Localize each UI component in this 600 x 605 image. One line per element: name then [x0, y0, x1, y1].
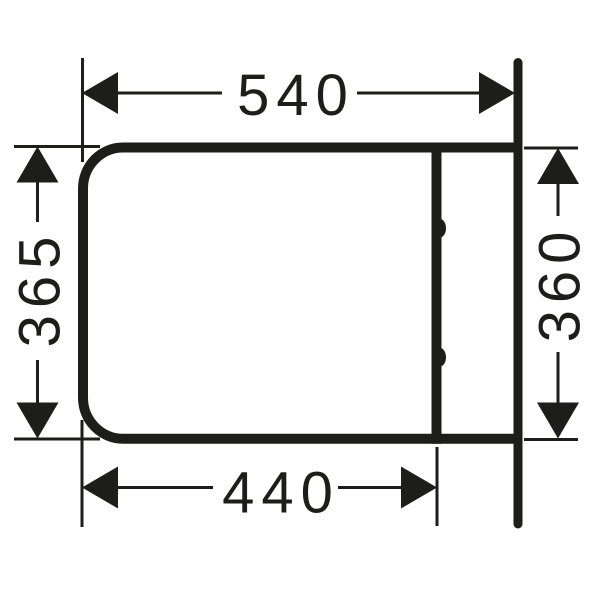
seat rear edge line: [432, 143, 442, 444]
arrowhead 360 down: [537, 403, 579, 439]
dim 360 line lower segment: [557, 352, 560, 405]
arrowhead 365 down: [17, 403, 59, 439]
arrowhead 360 up: [537, 148, 579, 184]
dim 365 line lower segment: [36, 360, 39, 405]
dim 440 line left segment: [116, 486, 213, 489]
svg-text:365: 365: [8, 230, 73, 348]
product outline (bowl body, rounded left corners): [83, 148, 514, 439]
extension line right horizontal lower: [524, 438, 578, 441]
extension line left horizontal upper: [14, 145, 100, 148]
svg-text:360: 360: [528, 225, 593, 343]
dim 540 line left segment: [116, 92, 222, 95]
svg-text:540: 540: [237, 63, 355, 128]
extension line bottom-left vertical: [81, 420, 84, 527]
extension line bottom-right vertical: [436, 447, 439, 526]
arrowhead 540 right: [479, 72, 515, 114]
dim 540 line right segment: [357, 92, 483, 95]
extension line left horizontal lower: [14, 438, 100, 441]
arrowhead 365 up: [17, 147, 59, 183]
extension line top-left vertical: [81, 58, 84, 162]
extension line right horizontal upper: [524, 147, 578, 150]
wall line: [514, 63, 523, 525]
dim 440 line right segment: [338, 486, 403, 489]
dim 365 line upper segment: [36, 180, 39, 222]
hinge bump lower: [440, 348, 446, 366]
hinge bump upper: [440, 219, 446, 237]
svg-text:440: 440: [222, 461, 340, 526]
dim 360 line upper segment: [557, 184, 560, 216]
arrowhead 540 left: [82, 72, 118, 114]
arrowhead 440 right: [401, 467, 437, 509]
arrowhead 440 left: [82, 467, 118, 509]
